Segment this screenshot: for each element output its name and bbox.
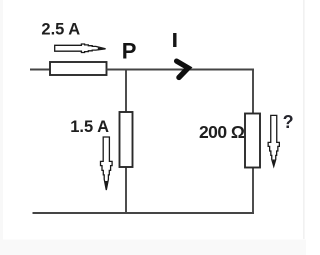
wire: top segment from R1 through node P to top-right corner xyxy=(107,69,255,71)
wire: middle vertical branch at node P xyxy=(125,70,127,213)
wire: top-left segment into series resistor xyxy=(30,69,51,71)
resistor R2 (middle branch box) xyxy=(120,112,133,167)
node P label xyxy=(122,39,137,64)
label ? (unknown current) xyxy=(283,112,294,132)
current arrow 2.5 A (outline block arrow pointing right) xyxy=(55,44,107,53)
current direction arrowhead (bold chevron on top wire) xyxy=(177,61,189,77)
wire: bottom return segment xyxy=(33,212,255,214)
svg-text:1.5 A: 1.5 A xyxy=(70,118,109,136)
svg-text:P: P xyxy=(122,39,137,64)
resistor R3 (200 ohm box, right branch) xyxy=(245,114,260,168)
label 1.5 A xyxy=(70,118,109,136)
page margin strip bottom xyxy=(0,240,306,255)
current label I xyxy=(173,33,176,47)
label 2.5 A xyxy=(41,21,80,39)
current arrow I=? (outline block arrow pointing down, right branch) xyxy=(268,115,279,166)
label 200 ohm xyxy=(199,122,245,142)
wire: right vertical branch xyxy=(252,70,254,214)
page margin line right xyxy=(303,0,305,239)
page margin strip left xyxy=(0,0,3,240)
current arrow 1.5 A (outline block arrow pointing down) xyxy=(101,137,113,191)
resistor R1 (top series box) xyxy=(50,62,107,75)
svg-text:200 Ω: 200 Ω xyxy=(199,122,245,142)
svg-text:2.5 A: 2.5 A xyxy=(41,21,80,39)
svg-text:?: ? xyxy=(283,112,294,132)
